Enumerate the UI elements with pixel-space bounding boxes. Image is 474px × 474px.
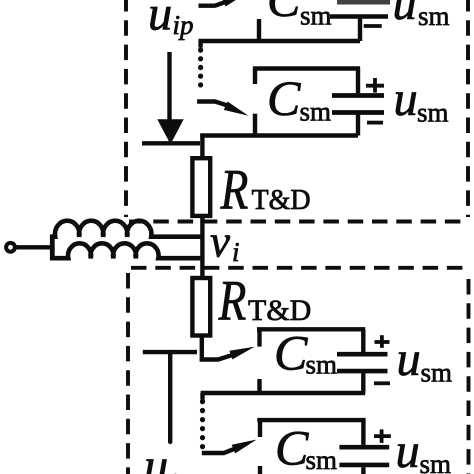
svg-text:sm: sm	[306, 445, 338, 474]
SM U1 minus sign	[364, 24, 382, 28]
inductor lower winding	[50, 243, 205, 258]
svg-text:u: u	[397, 333, 421, 386]
SM U2 left stubs	[253, 69, 257, 85]
SM L1 capacitor plates	[337, 352, 388, 357]
SM L2 box top edge	[257, 418, 365, 422]
svg-text:C: C	[274, 325, 308, 381]
svg-text:C: C	[275, 420, 309, 474]
resistor R_T&D (lower)	[192, 278, 210, 336]
SM L2 capacitor plates	[339, 445, 389, 450]
svg-text:u: u	[394, 73, 418, 126]
svg-text:C: C	[267, 70, 301, 126]
SM U1 capacitor top plate (clipped, gray)	[337, 0, 390, 5]
wire inductor left bar	[50, 235, 55, 260]
label u_ip arrowhead	[157, 119, 183, 144]
svg-text:sm: sm	[306, 350, 338, 380]
svg-text:sm: sm	[418, 1, 450, 31]
SM U2 minus sign	[367, 121, 383, 125]
svg-text:sm: sm	[417, 98, 449, 128]
SM U1 left stub	[257, 19, 261, 41]
SM U2 plus sign	[366, 84, 384, 88]
SM L1 box top edge	[257, 327, 365, 331]
SM L1 corner stub to dotted continuation	[200, 393, 204, 400]
SM U1 switch tail	[199, 2, 227, 6]
SM L1 left stubs	[257, 329, 261, 346]
SM U1 capacitor bottom plate	[330, 14, 388, 19]
SM L1 switch arrowhead	[229, 347, 254, 360]
SM L1 minus sign	[374, 381, 390, 385]
svg-text:u: u	[396, 425, 420, 474]
u_in reference tick	[143, 350, 197, 354]
dotted continuation (omitted SMs, upper)	[198, 50, 203, 94]
SM U2 switch arrowhead	[224, 102, 249, 116]
lower arm dashed boundary box	[128, 268, 469, 474]
SM L1 bottom edge wire	[201, 391, 366, 395]
wire terminal to inductor	[17, 245, 53, 249]
SM L2 switch arrowhead	[232, 440, 257, 454]
node v_i vertical junction wire	[200, 134, 204, 159]
u_ip reference tick	[142, 141, 200, 145]
SM L2 plus sign	[374, 434, 391, 438]
wire SM2 bottom edge to resistor	[200, 133, 358, 137]
upper arm dashed boundary box	[126, 0, 468, 222]
svg-text:sm: sm	[300, 1, 332, 31]
SM L2 switch tail	[202, 449, 235, 453]
svg-text:v: v	[210, 217, 230, 267]
resistor R_T&D (upper)	[192, 158, 210, 216]
dotted continuation (omitted SMs, lower)	[200, 402, 205, 447]
SM U2 right edge	[356, 69, 360, 94]
svg-text:R: R	[218, 270, 247, 333]
terminal node (AC port)	[6, 243, 15, 252]
svg-text:u: u	[393, 0, 417, 30]
svg-text:C: C	[267, 0, 301, 27]
SM U2 switch tail	[197, 102, 227, 106]
svg-text:ip: ip	[173, 10, 194, 40]
svg-text:u: u	[144, 440, 168, 474]
SM L2 right edge	[361, 420, 365, 445]
svg-text:sm: sm	[420, 449, 452, 474]
SM U1 switch arrowhead	[222, 0, 247, 7]
svg-text:in: in	[170, 468, 191, 474]
lower resistor bottom lead	[202, 336, 232, 360]
svg-text:sm: sm	[300, 97, 332, 127]
SM L1 right edge	[361, 329, 365, 352]
SM U1 (upper top submodule, clipped) bottom edge wire	[199, 39, 361, 43]
inductor upper winding	[50, 221, 205, 237]
SM L2 left stubs	[258, 420, 262, 437]
svg-text:i: i	[232, 237, 240, 267]
SM U1 corner stub to dotted continuation	[198, 41, 202, 48]
SM L1 plus sign	[375, 340, 390, 344]
SM U1 right edge	[358, 19, 362, 42]
svg-text:T&D: T&D	[252, 185, 311, 216]
svg-text:T&D: T&D	[248, 294, 311, 327]
svg-text:sm: sm	[421, 358, 453, 388]
SM U2 box top edge	[253, 66, 360, 70]
label u_ip arrow line	[167, 52, 171, 120]
SM U2 capacitor plates	[332, 93, 384, 98]
u_in arrow line	[168, 352, 172, 442]
svg-text:R: R	[220, 159, 249, 222]
svg-text:u: u	[148, 0, 172, 40]
